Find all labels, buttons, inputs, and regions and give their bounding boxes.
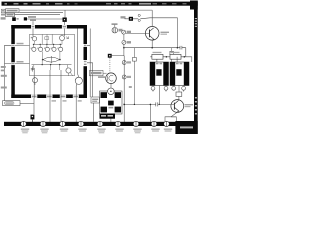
diode sym D2 [122, 40, 131, 44]
wire legend row2 [15, 10, 66, 17]
label under X9 [164, 129, 172, 132]
header title bar [2, 2, 198, 6]
splice X1 [21, 121, 27, 127]
legend row 2 box [1, 13, 15, 17]
transistor Q2 power [171, 100, 193, 113]
wire pin4 drop [75, 98, 77, 122]
ground splice G1 on bus [31, 115, 35, 123]
wire pin1 drop to splice [33, 98, 35, 114]
wire IC rail 2 [32, 64, 72, 65]
pin gap top 2 [62, 25, 67, 28]
wire S1 tee [20, 102, 34, 104]
node base-line drop junction [150, 104, 152, 106]
transistor Q15 [44, 44, 49, 51]
pin tick above gap1 [30, 19, 36, 25]
wire ground run across page [27, 18, 177, 48]
splice X2 [40, 121, 46, 127]
pin gap bottom 1 [31, 95, 37, 98]
pin gap right 2 [83, 60, 87, 66]
wire legend pair lower [20, 11, 64, 13]
pin P1 under K1 [151, 86, 155, 92]
transistor Q14 [37, 44, 42, 51]
connector label S1 stadium [3, 101, 20, 106]
resistor R1 [152, 52, 163, 59]
wire pin3 drop [60, 98, 62, 122]
node R2 out [184, 56, 186, 58]
transistor Q13 [31, 44, 36, 51]
transistor Q19 output [75, 74, 82, 98]
transistor Q17 [57, 44, 62, 51]
label note left margin 3 [1, 75, 7, 77]
bus bar ground [4, 122, 176, 126]
junction rings J2 [138, 14, 140, 21]
node H2 junction [123, 47, 125, 49]
lamp L1 indicator [112, 23, 123, 33]
motor M1 [106, 73, 117, 84]
wire Q1 base [126, 32, 150, 34]
resistor R3 collector [176, 86, 182, 100]
pin gap bottom 3 [60, 95, 66, 98]
pin P3 under K2 [172, 86, 176, 91]
label note left margin 4 [1, 87, 7, 89]
splice X5 [97, 121, 103, 127]
pin P4 under K2 [182, 86, 186, 92]
wire collector bus H2 [124, 47, 177, 49]
ground label plate mid [100, 114, 116, 119]
pin gap top 1 [31, 25, 35, 28]
wire S2 to bus [93, 103, 95, 122]
label under X6 [115, 129, 123, 132]
legend row 3 connectors [1, 16, 36, 21]
wire right pin1 run [87, 29, 90, 98]
wire relay rail H3 [150, 57, 192, 62]
wire Q2 base H4 [124, 103, 174, 105]
diode pair D11 lens [42, 51, 61, 63]
transistor Q12 top-right [60, 34, 69, 44]
wire rail drops [34, 60, 68, 70]
wire dashed to motor [109, 58, 111, 73]
diode D14 bottom-left [33, 76, 38, 85]
connector J1 [108, 54, 124, 58]
wire left pin 1 into box [15, 44, 30, 46]
wire pin2 drop [49, 98, 51, 122]
pin gap right 1 [83, 44, 87, 47]
right border bar [190, 1, 198, 134]
wire distributor to bus [110, 114, 112, 122]
connector E2 mid [121, 16, 134, 21]
fuse sym F1 on mid vertical [122, 61, 131, 65]
wire battery feed top [20, 9, 153, 11]
resistor R2 [170, 52, 181, 59]
wire mid drop with box [129, 48, 137, 105]
capacitor C2 on base [156, 102, 158, 106]
wire left pin 2 into box [15, 63, 30, 65]
label under X8 [151, 129, 159, 132]
splice X4 [78, 121, 84, 127]
wire IC rail 1 [33, 44, 62, 45]
wire IC top verticals [42, 34, 52, 44]
relay K1 [150, 62, 169, 86]
transistor Q1 [145, 10, 169, 48]
splice X7 [133, 121, 139, 127]
wire right pin2 run [87, 63, 93, 97]
connector label S2 [91, 97, 99, 103]
label under X4 [78, 129, 86, 132]
wire motor to distributor [110, 84, 112, 89]
fuse sym F2 on mid vertical [122, 75, 131, 79]
wire K1 centre to base line [158, 86, 160, 105]
wire feed into IC left [32, 29, 34, 37]
node mid drop junction [123, 104, 125, 106]
wire emitter stub to block [171, 117, 176, 121]
transistor Q18 [66, 68, 73, 76]
pin gap left 2 [11, 62, 15, 65]
label under X2 [40, 129, 48, 134]
wire mid vertical [123, 34, 125, 122]
pin P2 under K1 [164, 86, 168, 92]
wire left external drop [5, 45, 12, 101]
zener D13 [31, 66, 34, 71]
transistor Q11 top-left [31, 37, 37, 45]
resistor R11 [45, 37, 49, 40]
pin gap bottom 2 [46, 95, 52, 98]
wire right side feed [77, 29, 79, 74]
node right junction [177, 47, 179, 49]
wire drops from rail to relays [157, 57, 177, 62]
splice X8 [151, 121, 157, 127]
transistor Q16 [51, 44, 56, 51]
connector E1 above control unit [63, 18, 67, 26]
IC inner dashed box [30, 34, 75, 75]
legend row 1 box [1, 9, 19, 13]
node R1 out [166, 56, 168, 58]
label note left margin [1, 66, 6, 68]
diode sym D1 [122, 30, 131, 34]
label under X5 [97, 129, 105, 134]
splice X3 [60, 121, 66, 127]
connector C3 [170, 48, 174, 62]
label under X1 [21, 129, 29, 134]
capacitor C1 [177, 46, 185, 57]
relay K2 [170, 62, 189, 86]
node Q1 emitter junction [151, 47, 153, 49]
wire pin drops inside box [34, 68, 61, 98]
pin gap bottom 4 [73, 95, 79, 98]
title block bottom right [175, 121, 197, 134]
node H4 junction [123, 104, 125, 106]
label under X7 [133, 129, 141, 134]
label specks at pin drops [52, 100, 57, 101]
pin gap left 1 [11, 44, 15, 47]
splice X9 [164, 121, 170, 127]
wire Q2 emitter [165, 111, 179, 122]
splice X6 [115, 121, 121, 127]
control unit U1 thick frame [11, 25, 87, 98]
wire feed into IC right [64, 29, 66, 37]
wire drop to bus from base line [149, 104, 151, 121]
label note left margin 2 [1, 70, 5, 72]
label under X3 [60, 129, 68, 132]
distributor U2 [100, 88, 123, 114]
label M1 box [90, 70, 107, 78]
